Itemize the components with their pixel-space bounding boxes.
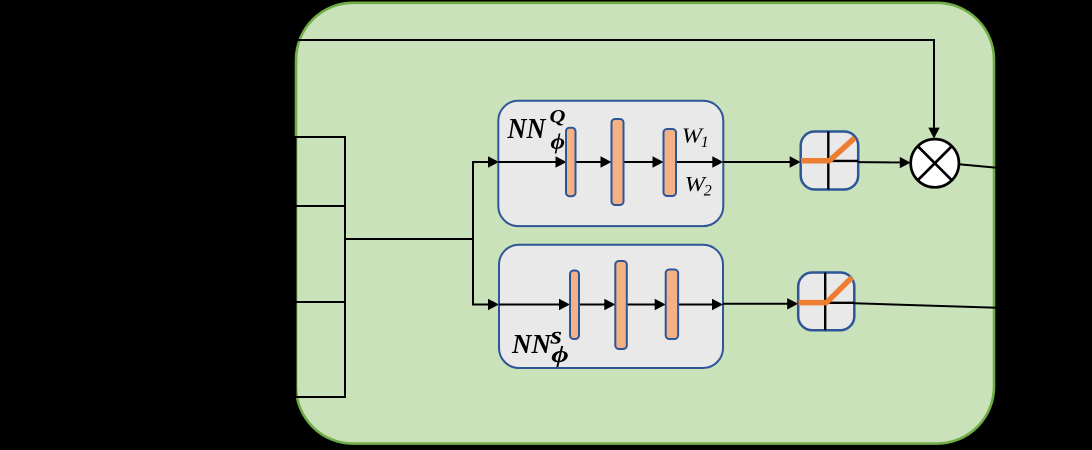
wire from input vector to split node [345, 238, 473, 240]
svg-text:NN: NN [507, 114, 547, 145]
output wire upper (Q value) [959, 164, 997, 168]
wire arrow into NN_s box [472, 299, 499, 310]
wire from upper activation to multiply node [858, 157, 910, 168]
NN_Q network box [498, 101, 723, 226]
output wire lower (s value) [854, 303, 997, 307]
wire arrow into NN_Q box [472, 156, 499, 167]
input vector (tall segmented rectangle) [296, 137, 346, 397]
NN_s hidden layer bar 3 [666, 270, 678, 340]
NN_s internal wires and arrows [499, 299, 723, 310]
svg-text:ϕ: ϕ [551, 129, 566, 154]
NN_Q hidden layer bar 1 [566, 128, 576, 197]
svg-text:NN: NN [511, 328, 552, 359]
svg-text:2: 2 [704, 182, 712, 199]
NN_s hidden layer bar 2 [615, 261, 627, 349]
label NN_phi^s [511, 323, 569, 367]
NN_s network box [499, 245, 723, 368]
svg-text:ϕ: ϕ [551, 342, 569, 367]
split node vertical wire [472, 162, 474, 305]
wire from NN_s box to lower activation box [723, 298, 798, 309]
feedback wire (top) [297, 40, 940, 139]
svg-text:1: 1 [701, 134, 709, 151]
multiply node (circle with X) [911, 139, 959, 187]
NN_Q hidden layer bar 3 [664, 129, 677, 196]
lower activation function box [798, 273, 854, 331]
svg-text:Q: Q [550, 107, 566, 128]
outer container box (green rounded rectangle) [296, 3, 994, 444]
NN_Q internal wires and arrows [498, 156, 723, 167]
wire from NN_Q box to upper activation box [723, 156, 800, 167]
label W2 [685, 172, 712, 200]
label W1 [682, 124, 709, 151]
upper activation function box [801, 132, 859, 190]
NN_s hidden layer bar 1 [570, 271, 579, 340]
NN_Q hidden layer bar 2 [612, 119, 624, 205]
label NN_phi^Q [507, 107, 566, 154]
